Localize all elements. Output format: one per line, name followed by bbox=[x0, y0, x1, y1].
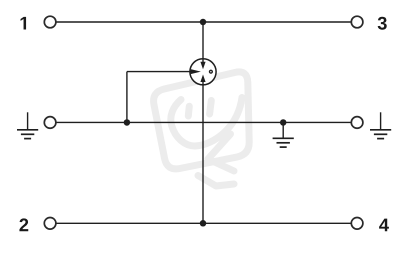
wire vertical lower (arrester to bottom node) bbox=[202, 85, 204, 223]
wire middle (left earth terminal to right earth terminal) bbox=[56, 121, 351, 123]
wire branch vertical (middle node to trigger line) bbox=[126, 72, 128, 123]
wire bottom (terminal 2 to terminal 4) bbox=[56, 222, 351, 224]
watermark logo bbox=[154, 72, 250, 186]
wire branch horizontal (to arrester left electrode) bbox=[127, 71, 193, 73]
surge arrester F1 (triggered gas discharge tube) bbox=[190, 59, 216, 85]
terminal label 1 bbox=[21, 17, 27, 30]
wire vertical upper (top node to arrester) bbox=[202, 22, 204, 59]
ground right outer bbox=[370, 112, 391, 138]
node top junction bbox=[200, 19, 207, 26]
terminal circle right middle bbox=[351, 117, 363, 129]
terminal circle 3 bbox=[351, 16, 363, 28]
terminal circle 4 bbox=[351, 218, 363, 230]
terminal circle 2 bbox=[44, 218, 56, 230]
terminal label 4 bbox=[379, 219, 389, 232]
node bottom junction bbox=[200, 220, 207, 227]
terminal label 3 bbox=[378, 17, 387, 30]
ground middle (at middle-right junction) bbox=[273, 122, 294, 147]
terminal circle left middle bbox=[44, 117, 56, 129]
node middle-left junction bbox=[124, 119, 130, 126]
wire top (terminal 1 to terminal 3) bbox=[56, 21, 351, 23]
terminal circle 1 bbox=[44, 16, 56, 28]
node middle-right junction bbox=[280, 119, 287, 126]
terminal label 2 bbox=[19, 218, 28, 231]
ground left outer bbox=[17, 112, 38, 138]
